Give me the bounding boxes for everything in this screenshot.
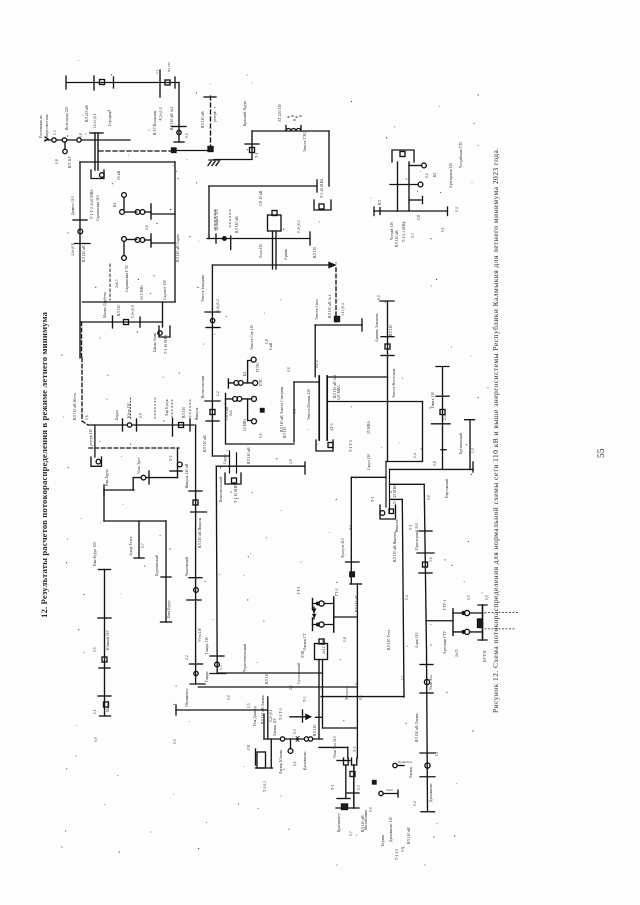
generator G3 circle pair [135, 210, 140, 215]
branch 2 down [165, 521, 167, 622]
bus F horizontal [212, 264, 329, 266]
boot B2 [344, 758, 349, 765]
svg-text:1,2: 1,2 [216, 391, 221, 396]
svg-text:Хулхута 110: Хулхута 110 [341, 538, 345, 558]
svg-text:ВЛ 110 кВ Элиста Северная: ВЛ 110 кВ Элиста Северная [280, 386, 284, 432]
svg-text:Сарул: Сарул [223, 454, 227, 464]
wire G3 to bar [145, 211, 151, 213]
bus O horizontal [390, 468, 474, 470]
CT circle B3 [77, 138, 81, 142]
svg-text:3,6: 3,6 [429, 557, 434, 562]
end bar bus D [316, 180, 318, 192]
svg-text:0,3: 0,3 [293, 729, 298, 734]
svg-text:ВЛ 110 кВ: ВЛ 110 кВ [395, 230, 399, 247]
tick on bus H [122, 419, 124, 431]
svg-text:Т-1: Т-1 [371, 496, 375, 502]
svg-text:Хар Булук: Хар Булук [165, 399, 169, 416]
svg-text:Лола 110: Лола 110 [259, 243, 263, 258]
svg-text:Нартовский: Нартовский [445, 479, 449, 498]
svg-text:К2: К2 [243, 372, 247, 376]
svg-text:Улан Эрге: Улан Эрге [137, 457, 141, 474]
tick 2 on left feeder [75, 243, 91, 245]
tick V4 a [98, 617, 111, 619]
tick top of dashed tie [204, 96, 216, 98]
H-machine group 2: left bar [452, 609, 454, 636]
svg-text:2,4: 2,4 [443, 415, 448, 420]
tick V10 h [420, 776, 435, 778]
CT circle on drop [177, 130, 181, 134]
dashed stub below K1 [109, 264, 111, 300]
svg-text:Элиста Сити: Элиста Сити [315, 299, 319, 320]
CT circle B4 below [63, 149, 67, 153]
svg-text:КУТЭС: КУТЭС [483, 649, 487, 662]
svg-text:АТ-2: АТ-2 [315, 360, 319, 368]
junction dot on bus E [223, 237, 227, 241]
svg-text:ВЛ: ВЛ [378, 200, 382, 205]
svg-text:5,2+j1,0: 5,2+j1,0 [159, 107, 164, 120]
svg-text:Джалыково: Джалыково [303, 751, 307, 770]
svg-text:Ики-Бурул 110: Ики-Бурул 110 [93, 542, 97, 566]
chain V4 top bar [99, 569, 111, 571]
end bar bus E [309, 232, 311, 245]
svg-text:Т-1 6,3: Т-1 6,3 [263, 781, 268, 792]
svg-text:Вознесеновка: Вознесеновка [201, 375, 205, 398]
svg-text:Т-1: Т-1 [409, 524, 413, 530]
K2 wire b [226, 398, 252, 400]
tick V10 c [419, 572, 432, 574]
K2 elbow wire bottom [248, 399, 252, 421]
stub bar below bus K [302, 710, 304, 722]
H1 left bar b [312, 618, 314, 631]
breaker in boot T5 [232, 478, 237, 483]
svg-text:ГПЭС: ГПЭС [256, 362, 260, 372]
svg-text:25 МВА: 25 МВА [367, 421, 371, 434]
svg-text:ВЛ 110 кВ Лагань: ВЛ 110 кВ Лагань [415, 713, 419, 742]
svg-text:Лагань ГТ: Лагань ГТ [303, 633, 307, 650]
CT circle V3 [215, 662, 220, 667]
svg-text:Улан Хол: Улан Хол [429, 675, 433, 690]
junction blob [342, 804, 348, 810]
svg-text:10 кВ: 10 кВ [117, 170, 121, 180]
stub at Priyutnoye [398, 765, 405, 767]
tick V6 b [381, 355, 394, 357]
svg-text:Джалыково 110: Джалыково 110 [389, 817, 393, 842]
dashed leader near bus E [214, 210, 216, 231]
bus N horizontal [315, 324, 362, 326]
svg-text:ВЛ 110: ВЛ 110 [265, 672, 269, 684]
svg-text:0,0: 0,0 [369, 807, 374, 812]
tick V2 c [189, 577, 202, 579]
svg-text:Маныч: Маныч [106, 700, 110, 712]
svg-text:0,5: 0,5 [93, 647, 98, 652]
NE CT circle 2 [418, 182, 423, 187]
svg-text:0,7: 0,7 [141, 543, 146, 548]
H2 right bar [482, 605, 484, 640]
svg-text:Артезиан ГТУ: Артезиан ГТУ [443, 630, 447, 654]
svg-text:СН: СН [247, 745, 251, 750]
wire bus C corner down [328, 131, 330, 186]
GB1 double leads down [273, 231, 277, 269]
tap wire crossing bus A [159, 70, 161, 97]
svg-text:0,0: 0,0 [485, 595, 490, 600]
svg-text:Троицкое 110: Троицкое 110 [215, 209, 219, 231]
mark V7 c [441, 449, 446, 451]
wire y747 east [319, 746, 348, 748]
svg-text:ВЛ 110 кВ №4: ВЛ 110 кВ №4 [170, 107, 174, 130]
H2 wire a [453, 612, 483, 614]
end bar branch 1 [134, 557, 144, 559]
stub to circle B4 [64, 142, 66, 149]
CT circle V10 g [425, 763, 430, 768]
svg-text:Сарпинская ГЭС: Сарпинская ГЭС [125, 264, 129, 292]
generator G2 circle [120, 210, 125, 215]
wire under box [256, 767, 273, 769]
svg-text:Элиста ТЭЦ: Элиста ТЭЦ [303, 132, 307, 152]
NE bus right bar [447, 207, 449, 216]
H1 wire b [313, 624, 334, 626]
dashed feeder below bus G [82, 322, 89, 425]
H1 lead stub [313, 607, 315, 619]
wire y401.5 east [327, 401, 422, 403]
svg-text:Чограйская ГЭС: Чограйская ГЭС [459, 141, 463, 168]
svg-text:ВЛ 110 кВ: ВЛ 110 кВ [235, 216, 239, 233]
svg-text:0,0: 0,0 [227, 695, 232, 700]
svg-text:0,1: 0,1 [441, 227, 446, 232]
feeder V8 with top bar [465, 420, 475, 470]
svg-text:ВЛ 110: ВЛ 110 [313, 724, 317, 736]
svg-text:ВЛ 110 кВ: ВЛ 110 кВ [203, 435, 207, 452]
svg-text:Т-2: Т-2 [353, 746, 357, 752]
svg-text:0,1: 0,1 [293, 761, 298, 766]
svg-text:0,0: 0,0 [173, 739, 178, 744]
svg-text:Т-1 Т-2 2x40 МВА: Т-1 Т-2 2x40 МВА [90, 189, 94, 219]
K2 gen pair a1 [234, 381, 239, 386]
feeder V3 down [215, 466, 218, 673]
bus C (Sarpinsk tie) [252, 130, 329, 132]
feeder V11 upper [350, 477, 352, 584]
stub with CT [290, 739, 292, 749]
tick V7 b [432, 423, 451, 425]
wire y617 link [334, 616, 358, 618]
CT circle at boot T3 [158, 331, 162, 335]
wire G4-G5 [126, 239, 136, 241]
NE bus left bar [373, 207, 375, 216]
svg-text:Барун: Барун [115, 410, 119, 420]
svg-text:Малые Дербеты: Малые Дербеты [103, 291, 107, 318]
CT circle on bus H [127, 423, 131, 427]
K2 gen pair a2 [238, 381, 243, 386]
wire y382 west of pair [294, 381, 319, 383]
crossing tap on bus H [172, 419, 174, 437]
svg-text:0,3: 0,3 [357, 785, 362, 790]
tick V2 e [190, 663, 203, 665]
svg-text:12 МВт: 12 МВт [243, 418, 247, 431]
H1 machine circle a [319, 601, 324, 606]
CT circle B2 [62, 138, 66, 142]
feeder x352 thick [353, 765, 355, 808]
NE leg A [397, 162, 399, 211]
breaker atop GB2 [319, 639, 324, 644]
wire y499 link to V9 [390, 498, 402, 500]
GB2 lead a [318, 660, 320, 740]
svg-text:Красинское: Красинское [337, 813, 341, 832]
generator block GB1 [268, 215, 282, 231]
NE stub 2 [390, 184, 418, 186]
ring main rectangle top edge [80, 161, 175, 163]
transformer legs pair 2 [230, 451, 237, 473]
parallel lead [263, 714, 265, 739]
junction blob KZ [373, 781, 377, 785]
corner down to boot B2 [347, 747, 349, 758]
svg-text:Арзгирская 110: Арзгирская 110 [449, 163, 453, 188]
svg-text:0,3: 0,3 [411, 233, 416, 238]
CT circle on left feeder [78, 229, 83, 234]
CT circle on link [141, 475, 146, 480]
svg-text:Т-1 Т-2: Т-1 Т-2 [349, 440, 353, 452]
svg-text:1,1: 1,1 [401, 675, 406, 680]
svg-text:ВЛ 110: ВЛ 110 [182, 406, 186, 418]
svg-text:0,7: 0,7 [349, 831, 354, 836]
valve mark bus M [296, 737, 299, 742]
ground symbol [208, 160, 220, 166]
wire G2-G3 [124, 211, 136, 213]
svg-text:Михайловка: Михайловка [364, 810, 368, 830]
dotted leaders above bus H [131, 398, 191, 420]
H1 machine circle b [319, 622, 324, 627]
svg-text:Ики Бурул: Ики Бурул [105, 469, 109, 486]
arrowhead end bus F [329, 263, 335, 268]
branch 1 down [138, 521, 140, 558]
svg-text:Бергин: Бергин [381, 835, 385, 846]
tick 2 on bus H [136, 419, 138, 431]
tick V10 e [420, 692, 433, 694]
tick on left feeder [73, 219, 87, 221]
svg-text:6 кВ: 6 кВ [269, 342, 273, 350]
bus L horizontal [176, 709, 268, 711]
svg-text:Яшалта: Яшалта [395, 519, 399, 532]
wire G1 down [123, 197, 125, 209]
wire bus A corner down [178, 83, 180, 143]
H2 dot b [462, 631, 465, 634]
svg-text:125 МВА: 125 МВА [337, 385, 341, 400]
solid tie segment east [176, 150, 211, 152]
transformer boot T7 [380, 505, 396, 519]
svg-text:Бага Бурул: Бага Бурул [167, 600, 171, 618]
wire from dashed link down [177, 448, 179, 477]
bus A (110kV Volgograd tie) [66, 76, 179, 89]
svg-text:0,2: 0,2 [413, 801, 418, 806]
bus G horizontal 110kV [81, 321, 163, 323]
NE substation bracket [392, 150, 414, 162]
ring rectangle right path [386, 402, 423, 462]
wire y728 east [323, 727, 357, 729]
svg-text:АТ-1: АТ-1 [330, 423, 334, 431]
svg-text:Лагань Южная: Лагань Южная [279, 750, 283, 774]
NE leg B [408, 162, 410, 211]
wire bus N down [314, 325, 316, 377]
bus K horizontal long [198, 686, 357, 688]
svg-text:0,5: 0,5 [467, 595, 472, 600]
svg-text:0,2: 0,2 [425, 173, 430, 178]
transformer boot T4 [91, 457, 102, 466]
feeder V11 lower [356, 584, 358, 758]
svg-text:ВЛ 110 кВ: ВЛ 110 кВ [82, 245, 86, 262]
svg-text:В-10 Волжская: В-10 Волжская [153, 110, 157, 135]
svg-text:Т-2 40 МВА: Т-2 40 МВА [320, 178, 324, 198]
tick below bus E [230, 236, 232, 250]
svg-text:Т-1: Т-1 [255, 152, 259, 158]
H1 arrow mark b [312, 614, 317, 619]
dotted marks above humps [288, 116, 301, 120]
tick V10 d [420, 664, 433, 666]
breaker feeder x352 [350, 772, 355, 777]
station legs pair 3 [386, 462, 390, 513]
svg-text:Черноземельский: Черноземельский [243, 644, 247, 672]
tick V2 a [189, 490, 202, 492]
end bar V2 [190, 683, 205, 685]
tick V10 f [420, 752, 435, 754]
svg-text:3,1+j0,4: 3,1+j0,4 [341, 303, 346, 316]
breaker Q3 [250, 148, 255, 153]
svg-text:0,8: 0,8 [55, 159, 60, 164]
breaker atop GB1 [272, 211, 277, 216]
boot B1 under V11 [352, 758, 357, 765]
svg-text:ТЭЦ: ТЭЦ [301, 650, 305, 658]
svg-text:0,1: 0,1 [435, 751, 440, 756]
wire y697 west [321, 696, 404, 698]
junction square dashed tie [208, 147, 213, 152]
svg-text:Ростовская эн.: Ростовская эн. [39, 114, 43, 138]
tick feeder x343 [337, 760, 350, 762]
svg-text:ГТ-1: ГТ-1 [297, 586, 301, 594]
wire bus I down [103, 490, 105, 521]
svg-text:ГТ-2: ГТ-2 [335, 588, 339, 596]
stub arrow near bus M [290, 716, 306, 718]
svg-text:1,3: 1,3 [53, 130, 58, 135]
small station box [257, 752, 266, 768]
svg-text:1,0: 1,0 [471, 448, 476, 453]
svg-text:0,0: 0,0 [185, 133, 190, 138]
end bar bus L [175, 705, 177, 715]
svg-text:ВЛ 110 кВ: ВЛ 110 кВ [407, 827, 411, 844]
svg-text:Юста 110: Юста 110 [127, 402, 131, 418]
svg-text:Утта 110: Утта 110 [198, 628, 202, 642]
svg-text:Аршан: Аршан [284, 249, 288, 260]
breaker Q1 on bus A [100, 80, 105, 85]
K2 collector bar 2 [225, 394, 227, 405]
GB2 lead b [322, 660, 324, 729]
transformer humps on bus C [286, 126, 301, 132]
tick V10 b [417, 552, 434, 554]
tick V4 c [98, 695, 111, 697]
CT circle bus M [280, 737, 284, 741]
bus J horizontal [218, 672, 323, 674]
breaker V4 a [102, 657, 107, 662]
dashed tie line horizontal [99, 150, 173, 152]
svg-text:Элиста Восточная: Элиста Восточная [392, 368, 396, 398]
wire from ring bottom to boot [162, 302, 164, 327]
tick on wire [245, 143, 259, 145]
K2 gen pair b2 [237, 397, 242, 402]
tick V2 b [191, 511, 207, 513]
bus I short [104, 489, 134, 491]
feeder V10 long [424, 484, 427, 811]
tick 2 on V1 [206, 327, 220, 329]
svg-text:ВЛ 110 кВ №1: ВЛ 110 кВ №1 [328, 295, 332, 318]
svg-text:1,8: 1,8 [343, 637, 348, 642]
svg-text:ВЛ 110 кВ Юста: ВЛ 110 кВ Юста [73, 393, 77, 420]
K2 filled mark [261, 409, 265, 413]
end bar V4 [100, 715, 111, 717]
svg-text:Сухотинский: Сухотинский [297, 663, 301, 684]
NE stub 3 [409, 199, 421, 201]
svg-text:ГТУ-1: ГТУ-1 [443, 600, 447, 610]
transformer boot T1 [91, 170, 104, 179]
breaker V4 b [104, 702, 109, 707]
disconnector tick 2 on bus A [113, 77, 115, 88]
K2 generator cluster: gen circle top [251, 357, 256, 362]
svg-text:ВЛ 110 кВ №2: ВЛ 110 кВ №2 [333, 375, 337, 398]
svg-text:резерв: резерв [213, 111, 217, 122]
double CT bus M 2 [308, 737, 312, 741]
H-machine group 1: left bar a [312, 599, 314, 610]
feeder chain V4 [104, 570, 106, 717]
svg-text:Элиста Западная: Элиста Западная [201, 275, 205, 302]
svg-text:ВЛ 110 кВ Яшалта: ВЛ 110 кВ Яшалта [393, 532, 397, 562]
svg-text:ВЛ 110 кВ Лагань: ВЛ 110 кВ Лагань [261, 695, 265, 724]
svg-text:2x4: 2x4 [229, 410, 233, 416]
breaker in bracket [400, 152, 405, 157]
CT circle Tavn [379, 791, 383, 795]
svg-text:Т-1 2,5: Т-1 2,5 [395, 849, 400, 860]
svg-text:1,6: 1,6 [85, 415, 90, 420]
bus H horizontal [88, 424, 194, 426]
wire bar2 to ring [151, 242, 175, 244]
tick 3 on V1 [205, 400, 220, 402]
svg-text:0,4+j0,2: 0,4+j0,2 [297, 220, 302, 233]
disconnector tick on drop [172, 126, 186, 128]
wire down from bus C left [251, 131, 253, 159]
breaker Q2 on bus A [165, 80, 170, 85]
K2 elbow wire down [248, 361, 252, 383]
svg-text:Яшкуль 110 кВ: Яшкуль 110 кВ [185, 463, 189, 488]
arrowhead on stub [306, 715, 311, 720]
NE bus tick [379, 208, 381, 215]
transformer boot T5 [225, 473, 241, 484]
svg-text:Красный Худук: Красный Худук [243, 101, 247, 126]
svg-text:Яшкуль: Яшкуль [195, 407, 199, 420]
svg-text:Дивное 110: Дивное 110 [71, 196, 75, 215]
bar V11 [350, 583, 362, 585]
breaker V2 [193, 500, 198, 505]
svg-text:Волгоград 220: Волгоград 220 [65, 106, 69, 130]
tick V11 [346, 561, 360, 563]
svg-text:энергосистема: энергосистема [45, 114, 49, 138]
wire G5 to bar2 [145, 239, 151, 241]
svg-text:Рисунок 12. Схема потокораспре: Рисунок 12. Схема потокораспределения дл… [491, 147, 500, 713]
end bar bus O [472, 462, 474, 472]
CT circle on that wire [177, 462, 182, 467]
disconnector tick 3 on bus A [174, 77, 176, 88]
H1 arrow mark a [312, 609, 317, 614]
svg-text:0,0: 0,0 [94, 737, 99, 742]
svg-text:0,0: 0,0 [287, 367, 292, 372]
tick on GB2 lead a [316, 716, 323, 718]
svg-text:Джалыково: Джалыково [429, 783, 433, 802]
ring main rectangle left edge / feeder down [79, 162, 81, 358]
bus M horizontal [264, 738, 323, 740]
end bar bus N [361, 319, 363, 331]
